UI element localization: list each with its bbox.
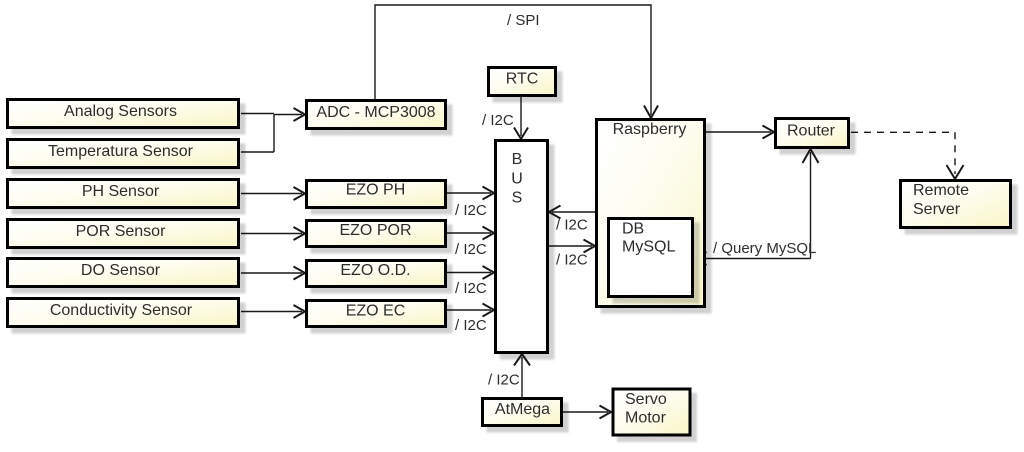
wire Raspberry to Router (706, 131, 771, 133)
svg-text:AtMega: AtMega (495, 401, 550, 418)
svg-text:DB: DB (622, 221, 644, 238)
wire Query MySQL vertical from Router (810, 152, 812, 259)
box RTC (489, 68, 556, 96)
wire Query MySQL horizontal to DB (698, 258, 811, 260)
box Temperatura Sensor (8, 140, 239, 168)
svg-text:/ I2C: / I2C (455, 241, 487, 258)
arrowhead into EZO O.D. (294, 267, 306, 280)
arrowhead into Servo Motor (600, 406, 612, 419)
dashed wire Router to Remote Server (851, 132, 955, 174)
svg-text:U: U (511, 171, 523, 188)
svg-text:/ I2C: / I2C (556, 252, 588, 269)
wire SPI from ADC top to Raspberry top (375, 5, 651, 115)
arrowhead into EZO POR (294, 227, 306, 240)
arrowhead up into BUS bottom (514, 354, 530, 366)
svg-text:PH Sensor: PH Sensor (82, 183, 160, 200)
svg-text:/ Query MySQL: / Query MySQL (713, 240, 816, 257)
box ADC - MCP3008 (307, 101, 446, 129)
svg-text:Temperatura Sensor: Temperatura Sensor (48, 143, 194, 160)
wire PH Sensor to EZO PH (241, 193, 302, 195)
arrowhead into EZO EC (294, 305, 306, 318)
svg-text:/ I2C: / I2C (482, 112, 514, 129)
svg-text:/ I2C: / I2C (455, 280, 487, 297)
arrowhead into ADC (294, 108, 306, 121)
svg-text:EZO EC: EZO EC (346, 303, 406, 320)
svg-text:/ SPI: / SPI (507, 12, 540, 29)
svg-text:/ I2C: / I2C (455, 202, 487, 219)
wire junction vertical (273, 115, 275, 153)
svg-text:DO Sensor: DO Sensor (81, 262, 161, 279)
wire Temperatura Sensor to junction (241, 151, 274, 153)
arrowhead EZO EC into BUS (483, 304, 495, 317)
box EZO O.D. (307, 261, 446, 287)
box DO Sensor (8, 259, 239, 287)
box DB MySQL (609, 219, 693, 297)
svg-text:Motor: Motor (625, 410, 667, 427)
svg-text:EZO PH: EZO PH (346, 182, 406, 199)
box Router (776, 119, 849, 148)
wire AtMega to BUS (521, 357, 523, 397)
box EZO POR (307, 221, 446, 247)
wire Analog Sensors to junction (241, 113, 274, 115)
arrowhead RTC into BUS (514, 128, 528, 140)
svg-text:Raspberry: Raspberry (613, 121, 687, 138)
box Conductivity Sensor (8, 299, 239, 327)
wire EZO POR to BUS (447, 232, 491, 234)
svg-text:/ I2C: / I2C (455, 317, 487, 334)
box EZO PH (307, 181, 446, 208)
arrowhead up into Router bottom (803, 149, 819, 163)
box EZO EC (307, 301, 446, 327)
box PH Sensor (8, 180, 239, 208)
svg-text:POR Sensor: POR Sensor (76, 223, 166, 240)
box POR Sensor (8, 220, 239, 248)
wire DO Sensor to EZO O.D. (241, 272, 302, 274)
arrowhead EZO PH into BUS (483, 187, 495, 200)
wire RTC to BUS (520, 97, 522, 136)
svg-text:ADC - MCP3008: ADC - MCP3008 (316, 104, 435, 121)
box Servo Motor (613, 389, 690, 435)
wire Raspberry to BUS (upper) (552, 211, 595, 213)
arrowhead into Raspberry left (584, 240, 596, 253)
box Raspberry (597, 120, 705, 307)
svg-text:Remote: Remote (913, 182, 969, 199)
svg-text:Server: Server (913, 201, 961, 218)
arrowhead into Remote Server (947, 165, 964, 179)
svg-text:/ I2C: / I2C (488, 372, 520, 389)
box AtMega (483, 399, 562, 426)
arrowhead into BUS right (549, 206, 561, 219)
svg-text:EZO POR: EZO POR (339, 222, 411, 239)
svg-text:Servo: Servo (625, 391, 667, 408)
arrowhead into DB MySQL (695, 252, 707, 265)
wire Conductivity Sensor to EZO EC (241, 311, 302, 313)
box Remote Server (901, 181, 1011, 228)
wire EZO PH to BUS (447, 192, 491, 194)
wire BUS to Raspberry (lower) (549, 245, 592, 247)
svg-text:Conductivity Sensor: Conductivity Sensor (50, 302, 193, 319)
wire AtMega to Servo Motor (563, 411, 608, 413)
svg-text:S: S (512, 190, 523, 207)
svg-text:RTC: RTC (506, 71, 539, 88)
arrowhead EZO POR into BUS (483, 227, 495, 240)
box Analog Sensors (8, 100, 239, 128)
arrowhead into Router (763, 126, 775, 139)
wire POR Sensor to EZO POR (241, 233, 302, 235)
box BUS (496, 141, 548, 353)
wire EZO EC to BUS (447, 309, 491, 311)
arrowhead EZO O.D. into BUS (483, 266, 495, 279)
svg-text:EZO O.D.: EZO O.D. (340, 262, 410, 279)
wire EZO O.D. to BUS (447, 272, 491, 274)
svg-text:Router: Router (787, 123, 836, 140)
svg-text:MySQL: MySQL (622, 239, 675, 256)
wire junction to ADC (274, 114, 302, 116)
arrowhead into EZO PH (294, 187, 306, 200)
svg-text:/ I2C: / I2C (556, 217, 588, 234)
svg-text:Analog Sensors: Analog Sensors (64, 103, 177, 120)
svg-text:B: B (512, 151, 523, 168)
arrowhead SPI into Raspberry (644, 106, 658, 119)
